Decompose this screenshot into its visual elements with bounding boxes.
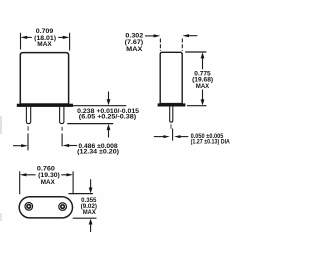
0.238 dim: bottom ext line: [67, 123, 113, 125]
svg-text:MAX: MAX: [126, 47, 142, 53]
0.302 dim: arrow pointing right: [145, 35, 155, 37]
0.355 dim: bottom ext line: [73, 217, 97, 219]
svg-text:MAX: MAX: [41, 180, 55, 186]
bottom view stadium outline: [19, 197, 72, 218]
0.355 dim: up arrow: [89, 219, 93, 225]
label 0.238 +0.010/-0.015: [77, 109, 140, 121]
crystal body side view: [160, 52, 182, 103]
label 0.355 (9.02) MAX: [81, 198, 97, 216]
arrow right 0.709: [63, 36, 70, 39]
svg-text:(7.67): (7.67): [125, 40, 144, 46]
label 0.775 (19.68) MAX: [192, 71, 213, 90]
pin 2 bottom view: [59, 203, 67, 211]
arrow left 0.709: [20, 36, 27, 39]
0.050 dim: arrow pointing right: [154, 136, 164, 138]
svg-text:MAX: MAX: [83, 210, 96, 216]
0.355 dim: top ext line: [69, 193, 94, 195]
0.238 dim: top ext line: [72, 105, 127, 107]
svg-text:(19.68): (19.68): [192, 78, 213, 84]
scan noise streak left edge: [0, 116, 2, 134]
0.050 dim: arrow pointing left: [174, 135, 180, 138]
base flange front: [17, 104, 73, 107]
svg-text:MAX: MAX: [196, 84, 209, 90]
side pin ext line: [172, 129, 174, 141]
side pin center dash: [170, 124, 172, 129]
svg-text:0.760: 0.760: [37, 167, 56, 173]
svg-text:MAX: MAX: [37, 41, 52, 48]
base flange side: [158, 103, 186, 106]
0.775 dim: down arrow: [202, 90, 204, 101]
svg-text:(6.05 +0.25/-0.38): (6.05 +0.25/-0.38): [79, 114, 136, 120]
0.760 ext line left: [19, 171, 21, 194]
0.486 dim: left arrow: [13, 145, 22, 147]
pin2 center ext line (dashed): [61, 127, 63, 131]
0.302 dim: arrow pointing left: [182, 34, 189, 37]
label 0.302 (7.67) MAX: [125, 33, 144, 53]
0.486 dim: right arrow: [63, 144, 70, 147]
label 0.486 ±0.008: [77, 144, 119, 155]
dim text 0.709 (18.01) MAX: [34, 28, 56, 48]
pin1 center ext line (dashed): [27, 126, 29, 130]
0.302 ext line left: [159, 39, 161, 52]
pin side view: [170, 107, 173, 123]
0.238 dim: down arrow: [108, 92, 110, 101]
0.775 dim: up arrow: [201, 52, 205, 58]
pin 2 front: [60, 107, 64, 124]
label 0.760 (19.30) MAX: [37, 167, 60, 186]
0.775 dim: top ext line: [185, 51, 206, 53]
0.775 dim: bottom ext line: [187, 105, 207, 107]
0.760 arrow right: [66, 173, 73, 176]
svg-text:(1.27 ±0.13) DIA: (1.27 ±0.13) DIA: [191, 139, 231, 145]
crystal body front view: [20, 53, 68, 104]
ext line right of 0.709 dim: [69, 33, 71, 51]
0.355 dim: down arrow: [90, 179, 92, 188]
0.760 ext line right: [72, 171, 74, 194]
svg-text:0.302: 0.302: [125, 33, 144, 39]
svg-text:0.775: 0.775: [194, 71, 211, 77]
pin 1 bottom view: [25, 202, 33, 210]
0.760 arrow left: [20, 173, 27, 176]
svg-text:(12.34 ±0.20): (12.34 ±0.20): [77, 149, 119, 155]
pin 1 front: [26, 107, 30, 124]
0.302 ext line right: [181, 39, 183, 52]
svg-text:(19.30): (19.30): [38, 173, 60, 179]
0.238 dim: up arrow: [107, 124, 111, 130]
label 0.050 ±0.005 DIA: [191, 134, 231, 145]
ext line left of 0.709 dim: [20, 33, 22, 50]
